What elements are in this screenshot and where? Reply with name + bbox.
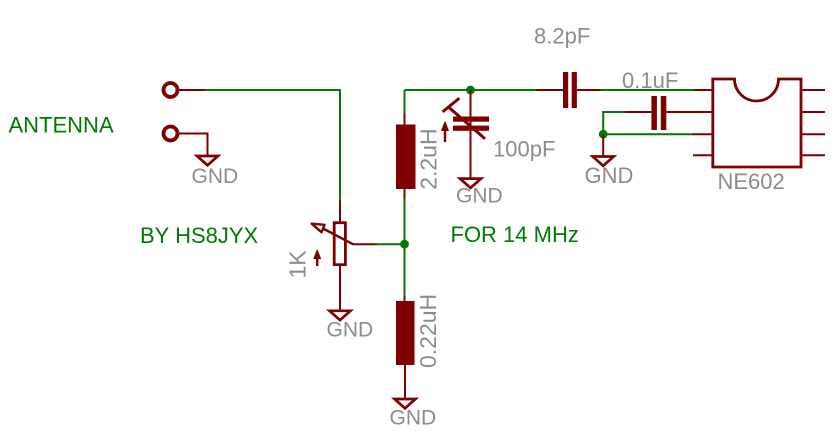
junction node C xyxy=(599,130,608,139)
inductor L1 2.2uH body xyxy=(396,125,416,190)
pin wire 2.2uH top xyxy=(404,113,406,125)
wire top net corner to trimmer junction xyxy=(405,89,471,91)
svg-text:GND: GND xyxy=(585,163,634,188)
pin wire 8.2pF left xyxy=(536,89,563,91)
op-amp U1 NE602 body with notch xyxy=(713,79,801,167)
pin wire pot bottom to ground xyxy=(339,266,341,311)
ground symbol below trimmer xyxy=(460,179,481,188)
pin wire P2 to ground xyxy=(178,134,208,157)
pin wire trimmer top through plates xyxy=(470,90,472,179)
wire 2.2uH to junction xyxy=(404,199,406,245)
trim capacitor C1 adjust stem xyxy=(443,98,486,139)
junction node A xyxy=(400,240,409,249)
pin wire junction C to ground xyxy=(602,134,604,156)
svg-text:NE602: NE602 xyxy=(718,169,785,194)
svg-text:GND: GND xyxy=(390,406,437,429)
pin wire 8.2pF right xyxy=(577,89,601,91)
pin wire NE602 pin8 xyxy=(801,89,825,91)
svg-text:GND: GND xyxy=(327,319,374,342)
pin wire 0.22uH top xyxy=(404,296,406,302)
pin wire NE602 pin5 xyxy=(801,154,825,156)
junction node B xyxy=(466,86,475,95)
wire wiper to junction xyxy=(377,243,405,245)
inductor L2 0.22uH body xyxy=(396,301,415,365)
trim capacitor C1 100pF plates xyxy=(453,117,489,131)
wire net antenna to pot corner xyxy=(205,90,340,201)
pin wire P1 xyxy=(178,89,205,91)
pin wire NE602 pin1 xyxy=(694,89,713,91)
pin wire pot wiper xyxy=(353,243,377,245)
ground symbol below junction C xyxy=(593,157,614,166)
antenna terminal pad P2 xyxy=(164,127,178,141)
ground symbol at pot xyxy=(330,311,351,320)
wire main vertical net top corner to 2.2uH xyxy=(404,90,406,113)
wire 8.2pF to NE602 pin1 xyxy=(601,89,694,91)
wire corner to 0.1uF xyxy=(603,112,625,134)
pin wire 0.1uF left xyxy=(625,111,651,113)
svg-text:8.2pF: 8.2pF xyxy=(534,24,590,49)
svg-text:0.22uH: 0.22uH xyxy=(415,294,441,368)
wire junction C to NE602 pin3 xyxy=(603,133,692,135)
svg-text:GND: GND xyxy=(192,165,239,188)
pin wire NE602 pin7 xyxy=(801,111,825,113)
svg-text:100pF: 100pF xyxy=(493,136,555,161)
wire junction B to 8.2pF xyxy=(471,89,537,91)
svg-text:FOR 14 MHz: FOR 14 MHz xyxy=(451,222,579,247)
ground symbol at antenna xyxy=(197,156,218,165)
svg-text:0.1uF: 0.1uF xyxy=(622,68,678,93)
potentiometer R1 wiper arrow xyxy=(312,224,354,245)
pin wire pot top xyxy=(339,201,341,223)
wire junction down xyxy=(404,244,406,296)
pin wire 0.1uF right to NE602 pin2 xyxy=(666,111,713,113)
capacitor C3 0.1uF plates xyxy=(651,96,666,130)
pin wire NE602 pin3 xyxy=(692,133,713,135)
trim capacitor adjust arrow xyxy=(441,121,449,142)
ground symbol below 0.22uH xyxy=(395,399,416,408)
capacitor C2 8.2pF plates xyxy=(563,72,577,108)
pin wire NE602 pin6 xyxy=(801,133,825,135)
potentiometer R1 body xyxy=(334,223,345,265)
svg-text:2.2uH: 2.2uH xyxy=(416,128,442,189)
svg-text:ANTENNA: ANTENNA xyxy=(9,113,114,138)
potentiometer adjust arrow xyxy=(313,249,321,266)
pin wire NE602 pin4 stub xyxy=(693,154,713,156)
pin wire 2.2uH bottom xyxy=(404,189,406,199)
antenna terminal pad P1 xyxy=(164,83,178,97)
svg-text:GND: GND xyxy=(456,184,503,207)
svg-text:BY HS8JYX: BY HS8JYX xyxy=(140,223,259,248)
svg-text:1K: 1K xyxy=(284,250,310,279)
pin wire 0.22uH bottom to ground xyxy=(404,365,406,399)
